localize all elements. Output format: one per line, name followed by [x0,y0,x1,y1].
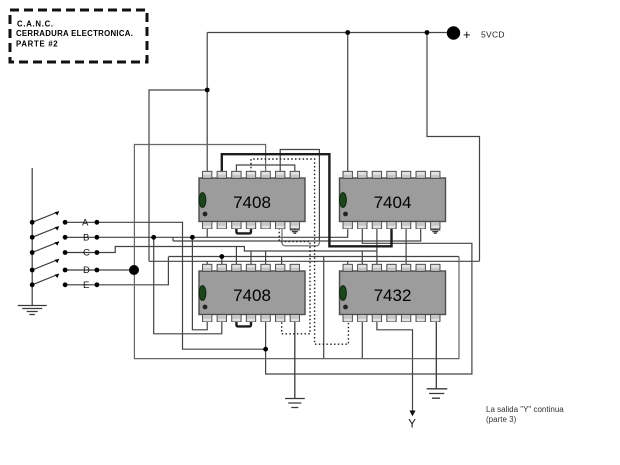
svg-text:La salida "Y" continua: La salida "Y" continua [486,405,564,414]
svg-text:7408: 7408 [233,286,271,305]
wire +5V drop to U2 pin1 [347,33,349,173]
switch lever arrowheads [55,212,60,216]
svg-text:7404: 7404 [374,193,412,212]
wire row A left [65,221,97,223]
wire stub U3 pin3 top [235,247,237,266]
wire +5V right branch [427,33,480,262]
node junction top rail 2 [425,30,430,35]
U3 bottom pins [203,315,212,322]
svg-text:B: B [83,233,89,244]
wire +5V top rail [207,32,447,34]
U3 orientation mark [199,286,206,301]
wire row E up [97,257,168,285]
wire node B drop to U3 pin1 [192,237,207,329]
U4 bottom pins [343,315,352,322]
svg-text:7432: 7432 [374,286,412,305]
switch pivot dots [63,220,68,225]
node on T line [219,254,224,259]
svg-text:E: E [83,280,89,291]
wire stub U4 pin2 top [361,251,363,265]
IC U4 7432 [340,271,446,315]
wire Y output from U4 pin3 [377,321,413,412]
wire row C long [97,247,377,253]
IC U1 7408 [199,178,305,222]
wire middle drop to box bottom [323,257,325,359]
svg-text:CERRADURA ELECTRONICA.: CERRADURA ELECTRONICA. [16,29,133,38]
wire row B long [97,228,348,237]
U1 pin1 dot [203,212,208,217]
wire U2 pin3 to U4 pin3 [376,228,378,265]
IC U2 7404 [340,178,446,222]
ground G4 below U4 [427,321,448,398]
U4 pin1 dot [343,305,348,310]
title block dashed border [10,10,147,62]
wire grey rounded U1 pin6 bottom [282,228,319,246]
wire dotted U1 pin6b to U3 pin6b [279,228,310,334]
U4 orientation mark [340,286,347,301]
switch output dots [95,220,100,225]
wire U1 pin3-pin7 bridge [236,165,294,172]
wire row B left [65,236,97,238]
U1 orientation mark [199,193,206,208]
svg-text:7408: 7408 [233,193,271,212]
svg-text:D: D [83,265,90,276]
wire stub U3 pin6 top [281,257,283,266]
wire U1 pin1 bottom stub [206,228,208,237]
wire U-loop U3 pins3-4 [236,321,251,326]
switch contact dots bus [30,220,35,225]
U1 top pins [203,171,212,178]
ground G1 U1 pin7 [290,228,300,233]
U4 top pins [343,264,352,271]
wire +5V drop to U1 pin1 [149,33,207,262]
switch bus vertical [31,168,33,306]
node B on row B [190,235,195,240]
svg-text:5VCD: 5VCD [481,30,505,40]
wire +5V low rail [149,260,480,262]
svg-text:PARTE #2: PARTE #2 [16,40,58,49]
wire thick U1 pin2 to U2 pin4 [222,154,392,246]
ground G5 switch bus [18,306,47,315]
wire stub U3 pin2 top [221,257,223,266]
svg-text:A: A [82,218,89,229]
svg-text:+: + [463,27,471,42]
wire row D to node [97,269,134,271]
wire L2 horizontal [173,228,421,241]
wire stub U3 pin4 top [250,251,252,265]
wire row E left [65,284,97,286]
wire box loop [134,145,459,359]
wire dotted U1 pin4 to U4 pin1 [251,159,348,344]
wire stub U3 pin1 top [206,261,208,265]
svg-text:(parte 3): (parte 3) [486,415,517,424]
U3 pin1 dot [203,305,208,310]
switch lever C [32,242,59,253]
wire U1 pin1 top vertical [206,90,208,172]
node 5VCD terminal [447,26,460,39]
U2 orientation mark [340,193,347,208]
IC U3 7408 [199,271,305,315]
svg-text:Y: Y [408,419,416,431]
node A on row B [151,235,156,240]
switch lever B [32,227,59,238]
ground G3 below U3 [285,321,305,408]
wire U4 pin2 bottom [361,321,363,359]
wire R U3 pin5 to U2 pin2 [266,228,472,374]
wire node A drop to U3 pin2 [154,237,222,333]
U2 top pins [343,171,352,178]
U2 bottom pins [343,222,352,229]
wire net T to U3 pin6 [168,256,459,258]
node junction top rail 1 [345,30,350,35]
wire U1 pin6 top to middle [280,150,319,242]
switch lever D [32,259,59,270]
svg-text:C.A.N.C.: C.A.N.C. [17,20,54,29]
wire stub U4 pin1 top [347,261,349,265]
wire row D left [65,269,97,271]
wire row C left [65,252,97,254]
node big dot row D [129,265,139,275]
switch lever A [32,212,59,223]
wire U2 pin5 to U4 pin5 [405,228,407,265]
node junction at 207,90 [205,88,210,93]
ground G2 U2 pin7 [430,228,440,233]
wire stub U3 pin5 top [265,251,267,265]
wire U-loop U1 pins3-4 [236,228,251,233]
switch lever E [32,274,59,285]
U2 pin1 dot [343,212,348,217]
node on wire A bottom [263,347,268,352]
node Y output arrow [409,411,415,417]
U3 top pins [203,264,212,271]
wire row A to lower area [97,222,266,349]
U1 bottom pins [203,222,212,229]
svg-text:C: C [83,248,90,259]
